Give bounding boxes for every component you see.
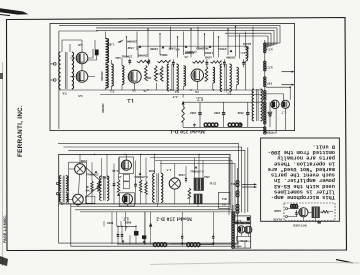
label model 250 D-2 — [156, 216, 192, 222]
label C7a — [266, 131, 274, 135]
wire rect bottom — [238, 233, 248, 248]
wire V7V8 — [67, 167, 102, 200]
svg-text:A.T.4: A.T.4 — [265, 48, 273, 52]
wire lower bottoms — [78, 189, 198, 207]
label L7a — [166, 168, 172, 172]
wire top bus 3 — [96, 30, 274, 45]
callout triangle 5 — [230, 50, 233, 53]
resistor R8 — [188, 188, 191, 198]
resistor R7 — [117, 180, 120, 196]
label lower small f — [204, 175, 210, 179]
svg-text:250000: 250000 — [100, 71, 104, 81]
label 0-25000 lower — [134, 175, 148, 179]
wire power cluster — [112, 212, 151, 244]
label small d — [196, 47, 204, 51]
capacitor C8 — [222, 108, 225, 120]
capacitor C6 — [242, 59, 245, 67]
part box B2 — [123, 174, 129, 188]
rectifier tube V12 — [238, 226, 245, 233]
rectifier box — [234, 216, 250, 248]
callout triangle 1 — [139, 45, 142, 48]
svg-text:NOT USED: NOT USED — [293, 223, 307, 226]
svg-text:.25: .25 — [184, 55, 188, 59]
svg-text:T.C.: T.C. — [239, 51, 245, 55]
svg-text:10000: 10000 — [150, 47, 158, 51]
capacitor C18 — [181, 233, 183, 242]
tube box V9 — [119, 157, 133, 173]
dark transformer T11 — [194, 194, 203, 204]
label 250000 note — [127, 40, 137, 44]
divider coil E — [264, 102, 266, 124]
svg-text:PLATE: PLATE — [273, 218, 282, 221]
svg-text:F87: F87 — [267, 82, 272, 86]
arrow out 2 — [282, 84, 295, 86]
label plus5 — [61, 201, 65, 205]
nest line right c — [160, 164, 235, 224]
left scan edge — [0, 62, 3, 266]
label 47 — [112, 169, 116, 173]
note box frame — [261, 138, 340, 221]
divider coil F — [264, 127, 266, 134]
capacitor C10 — [269, 110, 272, 120]
label lower small h — [107, 221, 114, 225]
coil st4 winding — [237, 67, 239, 84]
page number PAGE 1-5 MISC. — [3, 215, 7, 243]
label 1.0MF — [204, 51, 213, 55]
svg-text:25000Ω: 25000Ω — [121, 55, 132, 59]
svg-text:T.C.: T.C. — [244, 46, 250, 50]
wire power drops — [104, 212, 213, 245]
tube V8 — [73, 194, 84, 205]
callout triangle lower 3 — [195, 166, 198, 168]
nest line right b — [155, 161, 232, 220]
svg-text:T.1.: T.1. — [226, 92, 231, 96]
label lower small a — [80, 159, 87, 163]
svg-text:GRID: GRID — [274, 209, 281, 212]
tube V3 — [128, 70, 141, 83]
divider coil G — [236, 181, 239, 187]
tube V10 — [122, 194, 132, 204]
svg-text:2A: 2A — [194, 90, 199, 94]
svg-text:250000: 250000 — [226, 56, 236, 60]
junction dots lower — [94, 154, 214, 245]
wire T5 tops — [106, 32, 246, 91]
tube V4 — [191, 69, 203, 81]
nest bottom line b — [75, 209, 232, 211]
divider coil I — [236, 204, 239, 213]
label small c — [168, 47, 175, 51]
resistor R3 — [193, 61, 204, 63]
svg-text:250000: 250000 — [127, 40, 137, 44]
ground G5 — [181, 242, 184, 245]
choke T5 winding b — [106, 65, 109, 88]
arrow lower 2 — [242, 186, 257, 188]
resistor block R10b — [142, 235, 146, 242]
capacitor C1 — [128, 59, 131, 65]
svg-text:MF: MF — [85, 189, 90, 192]
label 500ohm — [160, 53, 168, 57]
label small b — [150, 47, 158, 51]
resistor R5 — [182, 105, 185, 122]
label A8 — [266, 111, 271, 115]
label L7 bottom — [122, 217, 129, 222]
header FERRANTI, INC. — [17, 105, 24, 157]
wire left inner vertical — [59, 31, 98, 129]
label AT7 — [265, 66, 273, 70]
label 250000 vertical bottom — [101, 103, 105, 113]
label T2 — [109, 90, 114, 94]
resistor R4 — [211, 61, 222, 63]
resistor R12 — [145, 65, 148, 80]
divider coil C — [264, 77, 266, 87]
label small i — [204, 56, 212, 60]
arrow lower 1 — [242, 183, 257, 185]
junction dots top — [126, 26, 236, 91]
divider coil H — [236, 191, 239, 197]
rectifier transformer T12 — [235, 222, 250, 225]
svg-text:T.3.: T.3. — [174, 90, 179, 94]
mic terminal 2 — [286, 216, 288, 218]
tube V2 — [76, 71, 88, 83]
svg-text:L.T.: L.T. — [113, 169, 119, 173]
nest bottom line a — [71, 206, 229, 208]
wire top bus 2 — [96, 28, 277, 44]
svg-text:8MF: 8MF — [107, 221, 114, 225]
tube V11 — [169, 178, 180, 189]
svg-text:2MF: 2MF — [190, 111, 197, 115]
choke L4 — [228, 123, 242, 127]
svg-text:Model 250 D-1: Model 250 D-1 — [170, 128, 205, 134]
resistor R13 — [154, 65, 157, 81]
ground G2 — [239, 124, 242, 127]
ground G3 — [121, 240, 124, 243]
svg-text:PAGE 1-5 MISC.: PAGE 1-5 MISC. — [3, 215, 7, 243]
wire top bus 4 — [225, 33, 271, 46]
svg-text:L.7.: L.7. — [166, 168, 172, 172]
svg-text:L.Φ.7: L.Φ.7 — [106, 43, 114, 47]
nest bottom line c — [80, 211, 235, 213]
label L2 right — [195, 96, 203, 101]
svg-text:40F: 40F — [146, 76, 151, 80]
capacitor C12 — [113, 181, 116, 189]
wire power bus — [117, 226, 233, 244]
mic cap C20 — [295, 210, 297, 217]
arrow R5 — [182, 101, 185, 105]
svg-text:250000: 250000 — [101, 103, 105, 113]
capacitor C19 — [212, 233, 214, 242]
output box SPKR — [219, 192, 231, 208]
rectifier tube V13 — [245, 226, 252, 233]
label 2A under V3b — [142, 89, 146, 93]
svg-text:ΦΛ: ΦΛ — [230, 182, 236, 186]
label 2MF c — [237, 111, 244, 115]
tube V7 — [75, 164, 86, 175]
svg-text:250000Ω: 250000Ω — [86, 173, 99, 177]
mic label GRID — [274, 209, 281, 212]
svg-text:T.4.: T.4. — [62, 92, 67, 96]
label L2 left — [126, 97, 134, 102]
label 2A V3 — [131, 89, 136, 93]
transformer T1 — [220, 64, 231, 92]
output transformer T6 — [252, 89, 262, 121]
transformer T7 — [100, 176, 109, 201]
label 250000 st2 — [184, 51, 194, 55]
label LT — [113, 169, 119, 173]
callout triangle 4 — [209, 45, 212, 48]
mic dashed box — [284, 203, 335, 221]
label small h — [184, 55, 188, 59]
svg-text:+5: +5 — [61, 201, 65, 205]
divider chain bus — [264, 40, 266, 133]
mic terminal 1 — [286, 208, 288, 210]
capacitor C2 — [147, 59, 150, 66]
label MO — [202, 47, 208, 51]
wire stage drops lower — [80, 154, 203, 181]
svg-text:25Ω: 25Ω — [204, 175, 210, 179]
label 25000 lower — [86, 173, 99, 177]
capacitor C3 — [172, 59, 175, 67]
label CL7 small — [106, 43, 114, 47]
capacitor C13 — [134, 181, 137, 190]
label AT6 — [265, 48, 273, 52]
svg-text:2A: 2A — [131, 89, 136, 93]
resistor R2 — [157, 60, 170, 62]
ground G6 — [212, 242, 215, 245]
label TC2 — [244, 46, 250, 50]
svg-text:Ω4: Ω4 — [222, 203, 226, 207]
svg-text:T.2.: T.2. — [109, 90, 114, 94]
svg-text:FERRANTI, INC.: FERRANTI, INC. — [17, 105, 24, 157]
svg-text:2MF: 2MF — [214, 111, 221, 115]
input transformer L5 — [59, 176, 68, 203]
label 40MF — [85, 185, 90, 192]
label 250000 vertical left — [100, 71, 104, 81]
tube V1 — [76, 52, 88, 64]
mic choke — [291, 204, 298, 208]
label lower small c — [118, 175, 122, 179]
resistor R15 — [205, 67, 208, 82]
choke L3 — [204, 123, 218, 127]
label T3 — [174, 90, 179, 94]
capacitor C16 — [121, 231, 124, 240]
input terminal J1 — [50, 63, 56, 66]
resistor R16 — [139, 180, 141, 192]
chassis box model 250 D-2 — [59, 154, 230, 204]
transformer T2 winding a — [112, 64, 114, 86]
rect bottom box — [237, 236, 251, 242]
nest bottom 1 — [71, 204, 242, 246]
coil st3 winding — [213, 67, 215, 83]
part box B1 — [86, 196, 95, 203]
label 0-25000 right — [190, 170, 204, 174]
nest line 1 — [58, 144, 239, 212]
transformer T2 winding b — [122, 66, 124, 85]
resistor block R9 — [134, 231, 139, 236]
tube box V7V8 — [69, 162, 87, 204]
label 40F — [146, 76, 151, 80]
nest line 4 — [247, 148, 249, 213]
capacitor C7 — [198, 108, 201, 120]
label small a — [127, 46, 134, 50]
label 2MF a — [190, 111, 197, 115]
svg-text:ΩΩ: ΩΩ — [115, 56, 121, 60]
label 25000 ohm — [121, 55, 132, 59]
label lower small b — [101, 176, 109, 180]
transformer T4 — [59, 52, 74, 89]
callout triangle 3 — [185, 45, 188, 48]
label 2MF b — [214, 111, 221, 115]
svg-text:FM52.: FM52. — [217, 47, 226, 51]
svg-text:2500: 2500 — [80, 159, 87, 163]
stage inner box top — [138, 46, 248, 58]
resistor R14 — [160, 66, 163, 81]
svg-text:41F: 41F — [156, 72, 161, 76]
label V6 — [281, 111, 286, 115]
input terminal J2 — [50, 79, 56, 82]
label AO lower — [230, 182, 236, 186]
svg-text:.1MF: .1MF — [127, 46, 134, 50]
wire bottom row bus — [182, 102, 184, 105]
wire bottom choke bus — [183, 102, 270, 127]
svg-text:G5: G5 — [78, 94, 83, 98]
capacitor C9 — [246, 108, 249, 120]
svg-text:L2.: L2. — [126, 97, 134, 102]
wire stage drops top — [127, 27, 254, 90]
tube V9 — [121, 160, 131, 170]
label lower small g — [125, 221, 132, 225]
wire input top — [62, 40, 97, 60]
label 250000 paren — [186, 50, 197, 54]
svg-text:.1MF: .1MF — [178, 173, 185, 177]
arrow up power — [149, 222, 152, 226]
svg-text:D unit.: D unit. — [313, 143, 335, 149]
label T4 — [62, 92, 67, 96]
svg-text:0-25000Ω: 0-25000Ω — [190, 170, 204, 174]
label lower small d — [148, 169, 155, 173]
wire lower bus — [100, 94, 262, 96]
label 250000 st1 — [138, 54, 148, 58]
note paragraph (rotated 180) — [268, 143, 335, 200]
callout triangle lower 2 — [139, 173, 142, 175]
svg-text:.1MΩ: .1MΩ — [101, 176, 109, 180]
svg-text:8.A: 8.A — [267, 111, 272, 115]
mic tube V14 — [299, 208, 308, 217]
wire top bus 1 — [59, 26, 280, 43]
svg-text:1.0MF: 1.0MF — [204, 51, 213, 55]
svg-text:5000: 5000 — [148, 169, 155, 173]
label small e — [217, 47, 226, 51]
mic transformer T13 — [312, 207, 320, 219]
wire top bus 5 — [228, 36, 268, 47]
svg-text:250: 250 — [233, 242, 238, 246]
svg-text:250000: 250000 — [138, 54, 148, 58]
arrow out 1 — [282, 71, 295, 73]
label AU — [174, 48, 180, 52]
choke L8 — [153, 243, 166, 247]
tube V6 — [281, 100, 289, 108]
svg-text:ΦΛ: ΦΛ — [221, 197, 227, 201]
capacitor C15 — [117, 231, 120, 240]
transformer T3 — [167, 64, 178, 91]
wire bus-chain connectors — [265, 43, 280, 47]
choke L9 — [187, 243, 200, 247]
svg-text:2MF: 2MF — [237, 111, 244, 115]
transformer T9 — [153, 173, 163, 202]
capacitor C14 — [185, 176, 187, 182]
label G8 tube V1 — [78, 43, 83, 47]
svg-text:.A.T: .A.T — [172, 95, 179, 99]
nest bottom 2 — [59, 204, 239, 243]
label V5 — [267, 111, 272, 115]
mic label NOT USED — [293, 223, 307, 226]
label 2A V4 — [194, 90, 199, 94]
resistor R6b — [97, 181, 99, 191]
capacitor C4 — [206, 59, 209, 67]
mic wires — [288, 206, 334, 220]
label 25 ohm — [209, 182, 216, 186]
nest line 3 — [68, 150, 245, 213]
label model 250 D-1 — [170, 128, 205, 134]
svg-text:Model 250 D-2: Model 250 D-2 — [156, 216, 192, 222]
ground G1 — [193, 124, 196, 127]
pen mark top-left — [0, 8, 29, 15]
svg-text:8MF: 8MF — [125, 221, 132, 225]
wire tube drops — [266, 86, 291, 133]
tube V5 — [271, 100, 279, 108]
callout triangle 2 — [162, 46, 165, 49]
chassis box model 250 D-1 — [50, 24, 295, 131]
svg-text:ΩM1: ΩM1 — [204, 56, 212, 60]
resistor R17 — [145, 182, 147, 194]
transformer T_2a winding — [184, 66, 186, 86]
nest line right a — [150, 158, 229, 216]
svg-text:A.T.7: A.T.7 — [265, 66, 273, 70]
label small g — [115, 56, 121, 60]
label T1 — [226, 92, 231, 96]
wire mid bus — [59, 89, 263, 91]
label 05Z — [233, 242, 238, 246]
label TC — [239, 51, 245, 55]
wire cap drops bottom row — [183, 95, 270, 111]
label 5G tube V2 — [78, 94, 83, 98]
mic resistor R11 — [321, 211, 328, 213]
input terminal J3 — [56, 182, 58, 184]
dark transformer T10 — [194, 178, 204, 191]
nest line 2 — [63, 147, 241, 213]
svg-text:500Ω: 500Ω — [160, 53, 168, 57]
crystal X1 — [95, 50, 99, 56]
choke T5 winding a — [106, 39, 109, 63]
rectifier chain — [232, 205, 235, 248]
capacitor C5 — [223, 59, 226, 67]
svg-text:80 XL: 80 XL — [240, 239, 248, 242]
divider chain bus lower — [237, 168, 239, 243]
bottom-left corner mark — [0, 256, 8, 266]
wire V1-V2 — [70, 49, 95, 77]
label 250000 st3 — [226, 56, 236, 60]
label F87 — [267, 82, 272, 86]
svg-text:25 Ω: 25 Ω — [209, 182, 216, 186]
svg-text:A.U.: A.U. — [174, 48, 180, 52]
label 41F — [156, 72, 161, 76]
svg-text:.25: .25 — [118, 175, 122, 179]
svg-text:L2.: L2. — [195, 96, 203, 101]
svg-text:ΩΩ01: ΩΩ01 — [242, 42, 251, 46]
divider coil D — [264, 90, 266, 100]
label small f — [242, 42, 251, 46]
divider coil A — [264, 43, 266, 53]
divider coil B — [264, 61, 266, 71]
